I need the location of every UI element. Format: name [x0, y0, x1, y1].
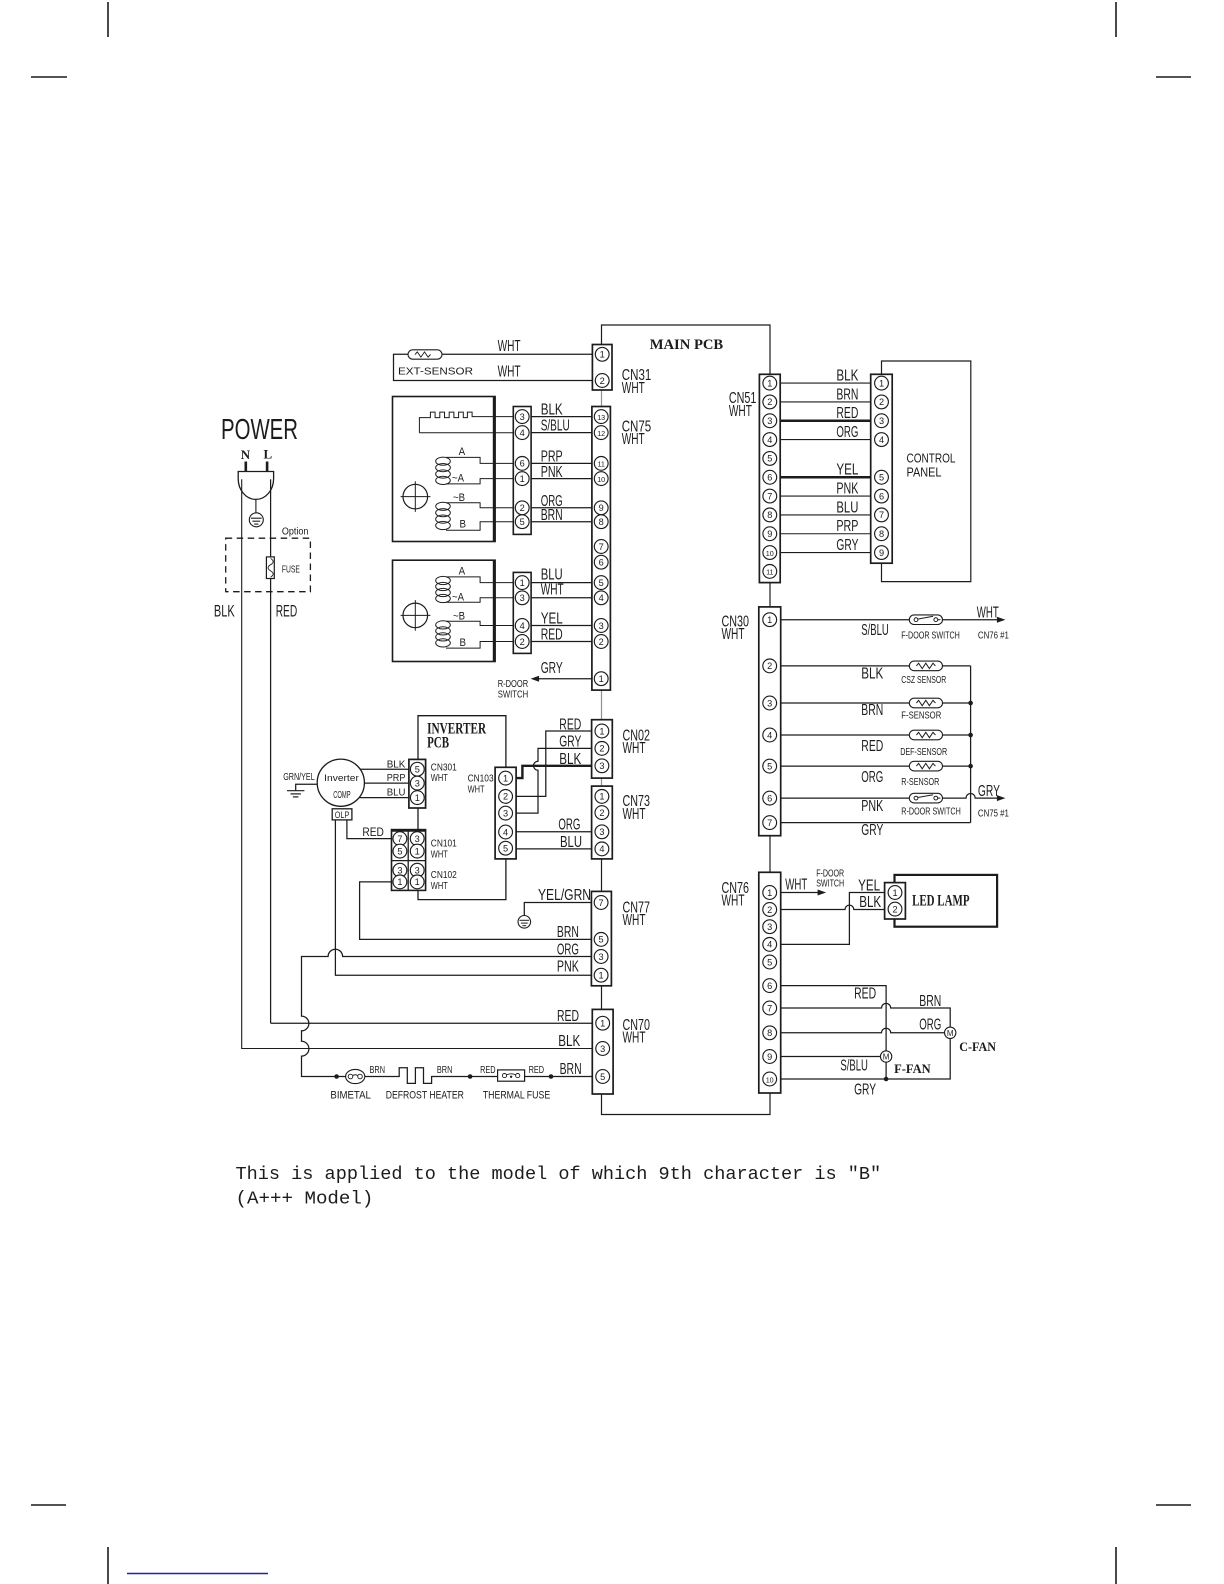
svg-text:M: M [883, 1053, 890, 1062]
OLP box [332, 809, 352, 820]
svg-text:YEL/GRN: YEL/GRN [538, 887, 591, 904]
damper2 coil A labels [452, 566, 466, 604]
svg-text:11: 11 [766, 568, 773, 577]
wire CN76-4 YEL to LED [781, 893, 885, 945]
wire CN30-6 PNK with hop [781, 793, 998, 798]
CN70 pins [596, 1016, 610, 1083]
svg-text:WHT: WHT [623, 806, 646, 823]
svg-text:Option: Option [282, 526, 309, 538]
defrost chain labels small [370, 1065, 545, 1076]
wire PRP inverter [364, 782, 412, 784]
ground symbol inverter [287, 791, 304, 797]
svg-text:PNK: PNK [541, 464, 564, 481]
svg-text:ORG: ORG [836, 424, 858, 441]
svg-text:6: 6 [520, 459, 525, 469]
arrow CN30-1 WHT [997, 617, 1006, 623]
svg-text:BRN: BRN [541, 507, 563, 524]
svg-text:GRY: GRY [861, 822, 883, 839]
svg-text:3: 3 [767, 416, 772, 426]
wires damper2 to CN75 [531, 583, 592, 642]
svg-text:2: 2 [767, 905, 772, 915]
CN51 pins [763, 376, 777, 578]
wire RED from plug through fuse [271, 479, 593, 1023]
svg-text:2: 2 [520, 637, 525, 647]
svg-text:8: 8 [767, 1028, 772, 1038]
connector CN51 box [759, 374, 780, 582]
svg-text:2: 2 [503, 792, 508, 802]
svg-text:BRN: BRN [557, 924, 579, 941]
CN02 pins [595, 724, 609, 773]
svg-text:PCB: PCB [427, 735, 449, 752]
svg-text:5: 5 [397, 846, 402, 856]
damper1 connector box [513, 407, 531, 535]
svg-text:BLU: BLU [387, 787, 406, 799]
svg-text:9: 9 [879, 548, 884, 558]
CN02 label [623, 728, 651, 758]
connector CN30 box [759, 607, 781, 836]
svg-text:8: 8 [767, 510, 772, 520]
MAIN PCB edge gray segments [601, 390, 603, 786]
svg-text:YEL: YEL [836, 462, 858, 479]
svg-text:9: 9 [599, 503, 604, 513]
svg-text:WHT: WHT [722, 892, 745, 909]
wires CN51 to control panel [780, 383, 871, 552]
damper2 coil B [436, 621, 514, 648]
svg-text:9: 9 [767, 1052, 772, 1062]
svg-text:WHT: WHT [498, 338, 521, 355]
svg-text:4: 4 [599, 844, 604, 854]
CN102 right pins [410, 863, 424, 889]
blue footer line [127, 1573, 268, 1575]
svg-text:1: 1 [879, 378, 884, 388]
wire ORG CN103-4 to CN73-3 [516, 831, 592, 833]
wire YEL/GRN CN77-7 ground [524, 903, 591, 916]
svg-text:WHT: WHT [622, 431, 645, 448]
ext-sensor thermistor [408, 350, 442, 359]
svg-text:F-DOOR SWITCH: F-DOOR SWITCH [901, 630, 960, 641]
svg-text:1: 1 [520, 578, 525, 588]
svg-text:WHT: WHT [622, 380, 645, 397]
inverter wire labels [387, 758, 406, 798]
wire GRY CN02-2 to CN103-3 with hop [516, 748, 592, 813]
svg-text:SWITCH: SWITCH [498, 689, 529, 700]
R-DOOR SWITCH contact [909, 793, 942, 803]
INVERTER PCB label [427, 720, 487, 751]
svg-text:SWITCH: SWITCH [816, 878, 844, 889]
wire WHT ext-sensor pin2 loop [394, 354, 593, 380]
svg-text:COMP: COMP [333, 789, 350, 801]
CN301 label [431, 762, 457, 784]
svg-text:RED: RED [480, 1065, 496, 1076]
svg-text:WHT: WHT [623, 1030, 646, 1047]
svg-text:1: 1 [599, 971, 604, 981]
svg-text:S/BLU: S/BLU [541, 418, 570, 435]
wire BLK CN02-3 to CN103-1 thick [516, 766, 592, 778]
svg-text:BRN: BRN [370, 1065, 386, 1076]
svg-text:PNK: PNK [557, 959, 580, 976]
damper2 coil B labels [453, 611, 466, 649]
svg-text:7: 7 [599, 542, 604, 552]
arrow to R-DOOR SWITCH [531, 676, 540, 682]
svg-text:6: 6 [767, 981, 772, 991]
svg-text:(A+++ Model): (A+++ Model) [236, 1190, 374, 1210]
svg-text:CN75 #1: CN75 #1 [978, 809, 1009, 820]
svg-text:4: 4 [520, 428, 525, 438]
crop mark top-left [31, 2, 108, 77]
damper1 coil B [436, 502, 514, 530]
svg-text:~B: ~B [453, 492, 465, 504]
svg-text:CSZ SENSOR: CSZ SENSOR [901, 675, 946, 686]
svg-text:6: 6 [879, 491, 884, 501]
motor F-FAN [880, 1051, 891, 1062]
svg-text:A: A [459, 566, 466, 578]
wire CN76-10 GRY [781, 1039, 951, 1080]
wire CN30-1 S/BLU to F-DOOR SWITCH [781, 619, 998, 621]
CN73 pins [595, 790, 609, 856]
CN103 wire labels [558, 716, 582, 851]
CN101 right pins [410, 832, 424, 858]
svg-text:5: 5 [415, 765, 420, 775]
svg-text:3: 3 [520, 412, 525, 422]
svg-text:1: 1 [520, 474, 525, 484]
connector CN76 box [759, 872, 781, 1093]
svg-text:RED: RED [854, 986, 876, 1003]
wire labels damper2 [541, 566, 564, 643]
svg-text:WHT: WHT [722, 626, 745, 643]
CN102 label [431, 870, 457, 892]
svg-text:N: N [241, 447, 251, 462]
svg-text:2: 2 [599, 744, 604, 754]
svg-text:3: 3 [520, 593, 525, 603]
svg-text:3: 3 [415, 866, 420, 876]
damper1 connector pins [515, 410, 529, 529]
connector CN70 box [592, 1009, 613, 1094]
svg-text:RED: RED [276, 601, 298, 620]
svg-text:YEL: YEL [858, 878, 880, 895]
CSZ SENSOR [909, 661, 942, 671]
CN30 sensor captions [900, 630, 961, 817]
power plug body [238, 472, 273, 500]
LED lamp connector pins [888, 886, 902, 916]
connector CN75 box [592, 407, 611, 691]
junction dot thermal fuse left [468, 1074, 473, 1079]
svg-text:5: 5 [767, 957, 772, 967]
R-DOOR SWITCH label [498, 679, 529, 701]
svg-text:GRY: GRY [541, 660, 563, 677]
svg-text:5: 5 [599, 935, 604, 945]
wire GRY to R-DOOR SWITCH [533, 678, 592, 680]
svg-text:3: 3 [767, 698, 772, 708]
damper motor 2 box [393, 560, 496, 661]
svg-text:BLK: BLK [559, 751, 582, 768]
svg-text:PRP: PRP [836, 518, 858, 535]
damper motor 2 symbol [401, 600, 431, 631]
svg-text:BLK: BLK [214, 601, 235, 620]
wire PNK from OLP to CN77-1 [335, 820, 591, 975]
wire CN76-1 WHT arrow [781, 892, 822, 894]
svg-text:GRY: GRY [836, 537, 858, 554]
CN101 label [431, 839, 457, 861]
svg-text:POWER: POWER [221, 414, 298, 446]
svg-text:4: 4 [520, 621, 525, 631]
connector CN101/CN102 box [392, 830, 426, 891]
wire WHT ext-sensor pin1 [442, 353, 592, 355]
svg-text:WHT: WHT [431, 850, 448, 861]
svg-text:7: 7 [767, 1003, 772, 1013]
motor C-FAN [945, 1027, 956, 1038]
svg-text:3: 3 [600, 1044, 605, 1054]
CN101 pins [393, 832, 407, 858]
fan wire labels [840, 986, 941, 1099]
CN73 label [623, 793, 651, 823]
svg-text:2: 2 [767, 661, 772, 671]
svg-text:4: 4 [503, 827, 508, 837]
CN77 label [623, 899, 651, 929]
svg-text:5: 5 [520, 517, 525, 527]
svg-text:GRY: GRY [854, 1082, 876, 1099]
svg-text:5: 5 [599, 578, 604, 588]
connector CN02 box [592, 720, 613, 778]
svg-text:WHT: WHT [498, 364, 521, 381]
fuse F1 [266, 557, 274, 579]
CN31 label [622, 367, 652, 397]
svg-text:6: 6 [767, 793, 772, 803]
svg-text:BLK: BLK [387, 758, 406, 770]
svg-text:1: 1 [600, 350, 605, 360]
svg-text:M: M [947, 1029, 954, 1038]
svg-text:5: 5 [767, 454, 772, 464]
svg-text:~A: ~A [452, 592, 465, 604]
svg-text:OLP: OLP [335, 810, 350, 820]
arrow CN76-1 [818, 890, 827, 896]
svg-text:13: 13 [597, 413, 605, 422]
svg-text:7: 7 [767, 491, 772, 501]
Option dashed box [226, 538, 311, 592]
svg-text:1: 1 [397, 877, 402, 887]
svg-text:R-DOOR: R-DOOR [498, 679, 529, 690]
svg-text:PRP: PRP [387, 772, 406, 784]
wire CN30-3 BRN [781, 702, 971, 704]
crop mark bottom-left [31, 1505, 108, 1584]
wire BLU CN103-5 to CN73-4 [516, 848, 592, 850]
svg-text:WHT: WHT [785, 876, 807, 893]
svg-text:PANEL: PANEL [907, 465, 942, 479]
svg-text:ORG: ORG [558, 816, 580, 833]
CN30 arrow labels [977, 605, 1009, 820]
svg-text:ORG: ORG [557, 941, 579, 958]
svg-text:3: 3 [879, 416, 884, 426]
svg-text:1: 1 [599, 726, 604, 736]
svg-text:7: 7 [879, 510, 884, 520]
damper motor 1 symbol [401, 481, 431, 512]
wire BRN CN102 to CN77-5 [360, 882, 592, 940]
svg-text:3: 3 [599, 621, 604, 631]
wire labels CN51 [836, 368, 859, 554]
svg-text:Inverter: Inverter [324, 773, 359, 783]
svg-text:BRN: BRN [861, 702, 883, 719]
junction dot bimetal [334, 1074, 339, 1079]
svg-text:CN76 #1: CN76 #1 [978, 631, 1009, 642]
svg-text:2: 2 [599, 637, 604, 647]
svg-text:BLK: BLK [541, 402, 564, 419]
svg-text:RED: RED [541, 627, 563, 644]
CN77 pins [594, 896, 608, 983]
svg-text:2: 2 [767, 397, 772, 407]
svg-text:~A: ~A [452, 472, 465, 484]
MAIN PCB outline [602, 325, 771, 1115]
DEF-SENSOR [909, 730, 942, 740]
svg-text:WHT: WHT [623, 740, 646, 757]
svg-text:7: 7 [397, 834, 402, 844]
CN70 wire labels [557, 1008, 582, 1078]
svg-text:RED: RED [861, 738, 883, 755]
svg-text:R-SENSOR: R-SENSOR [901, 777, 939, 788]
svg-text:1: 1 [503, 773, 508, 783]
CN301 pins [410, 762, 424, 804]
defrost chain captions [330, 1090, 550, 1102]
svg-text:1: 1 [599, 674, 604, 684]
svg-text:CN103: CN103 [468, 773, 494, 784]
CN30 label [722, 613, 750, 643]
CN31 pins [595, 347, 609, 387]
svg-text:BLK: BLK [558, 1033, 581, 1050]
svg-text:BLU: BLU [560, 834, 582, 851]
LED LAMP box [895, 875, 998, 927]
svg-text:3: 3 [599, 827, 604, 837]
plug earth symbol [249, 513, 263, 527]
svg-text:GRY: GRY [978, 783, 1000, 800]
svg-text:1: 1 [600, 1019, 605, 1029]
svg-text:B: B [460, 519, 467, 531]
svg-text:11: 11 [597, 460, 604, 469]
svg-text:RED: RED [362, 827, 384, 839]
damper1 coil B labels [453, 492, 466, 531]
CONTROL PANEL box [882, 361, 971, 582]
svg-text:12: 12 [597, 429, 605, 438]
svg-text:RED: RED [557, 1008, 579, 1025]
junction dot thermal fuse right [549, 1074, 554, 1079]
F-SENSOR [909, 698, 942, 708]
wire CN76-7 BRN to C-FAN [781, 1003, 951, 1027]
junction dot DEF-SENSOR [968, 733, 973, 738]
wire GRN/YEL ground [296, 784, 318, 791]
wire BLK from plug [242, 479, 593, 1048]
svg-text:ORG: ORG [861, 769, 883, 786]
svg-text:WHT: WHT [977, 605, 999, 622]
damper2 connector pins [515, 576, 529, 649]
svg-text:WHT: WHT [541, 581, 564, 598]
svg-text:S/BLU: S/BLU [840, 1058, 868, 1075]
BIMETAL component [346, 1069, 365, 1083]
svg-text:2: 2 [879, 397, 884, 407]
svg-text:6: 6 [767, 473, 772, 483]
CN103 label [468, 773, 494, 795]
connector CN301 box [409, 759, 426, 808]
svg-text:4: 4 [767, 730, 772, 740]
svg-text:BIMETAL: BIMETAL [330, 1090, 371, 1102]
CN75 label [622, 418, 652, 448]
svg-text:This is applied to the model o: This is applied to the model of which 9t… [236, 1165, 882, 1185]
connector CN103 box [495, 767, 516, 859]
connector CN31 box [592, 345, 612, 391]
svg-text:RED: RED [529, 1065, 545, 1076]
svg-text:WHT: WHT [431, 881, 448, 892]
svg-text:10: 10 [766, 1075, 774, 1084]
damper1 coil A labels [452, 446, 466, 484]
svg-text:B: B [460, 637, 467, 649]
junction dot F-SENSOR [968, 701, 973, 706]
svg-text:ORG: ORG [919, 1016, 941, 1033]
svg-text:1: 1 [415, 846, 420, 856]
svg-text:3: 3 [767, 922, 772, 932]
svg-text:DEF-SENSOR: DEF-SENSOR [900, 747, 947, 758]
control panel connector box [871, 374, 893, 563]
CN77 wire labels [557, 924, 580, 975]
svg-text:2: 2 [892, 904, 897, 914]
wire CN30-7 GRY [781, 822, 971, 824]
svg-text:4: 4 [767, 940, 772, 950]
svg-text:EXT-SENSOR: EXT-SENSOR [398, 365, 473, 377]
plug prongs [246, 462, 267, 472]
svg-text:1: 1 [415, 793, 420, 803]
svg-text:3: 3 [503, 808, 508, 818]
svg-text:~B: ~B [453, 611, 465, 623]
svg-text:FUSE: FUSE [282, 564, 300, 576]
svg-text:5: 5 [503, 844, 508, 854]
svg-text:4: 4 [599, 593, 604, 603]
svg-text:A: A [459, 446, 466, 458]
svg-text:RED: RED [836, 405, 858, 422]
sensor bus vertical GRY [970, 666, 972, 823]
damper heater resistor comb [419, 412, 513, 433]
svg-text:2: 2 [599, 808, 604, 818]
svg-text:3: 3 [415, 778, 420, 788]
INVERTER PCB outline [418, 716, 506, 900]
svg-text:RED: RED [559, 716, 581, 733]
wire CN76-9 S/BLU to F-FAN [781, 1056, 881, 1058]
svg-text:6: 6 [599, 558, 604, 568]
svg-text:9: 9 [767, 529, 772, 539]
svg-text:3: 3 [415, 834, 420, 844]
CN103 pins [499, 771, 513, 855]
svg-text:S/BLU: S/BLU [861, 622, 889, 639]
wire CN30-2 BLK [781, 665, 971, 667]
svg-text:1: 1 [767, 888, 772, 898]
connector CN77 box [591, 891, 611, 985]
wire RED from OLP to CN101-7 [347, 820, 394, 839]
damper2 connector box [513, 572, 531, 653]
svg-text:BRN: BRN [836, 386, 858, 403]
plug earth stem [255, 499, 257, 513]
svg-text:THERMAL FUSE: THERMAL FUSE [483, 1090, 550, 1102]
CN70 label [623, 1017, 651, 1047]
svg-text:1: 1 [415, 877, 420, 887]
svg-text:7: 7 [599, 898, 604, 908]
svg-text:10: 10 [766, 549, 774, 558]
CN30 pins [763, 613, 777, 830]
svg-text:BLK: BLK [836, 368, 859, 385]
svg-text:BRN: BRN [560, 1061, 582, 1078]
connector CN73 box [592, 786, 613, 859]
inverter compressor circle [317, 759, 364, 806]
svg-text:F-SENSOR: F-SENSOR [901, 710, 941, 721]
F-DOOR SWITCH label cn76 [816, 869, 844, 890]
svg-text:4: 4 [879, 435, 884, 445]
control panel connector pins [875, 376, 889, 559]
svg-text:8: 8 [599, 517, 604, 527]
damper motor 1 box [393, 397, 496, 542]
svg-text:L: L [264, 447, 273, 462]
